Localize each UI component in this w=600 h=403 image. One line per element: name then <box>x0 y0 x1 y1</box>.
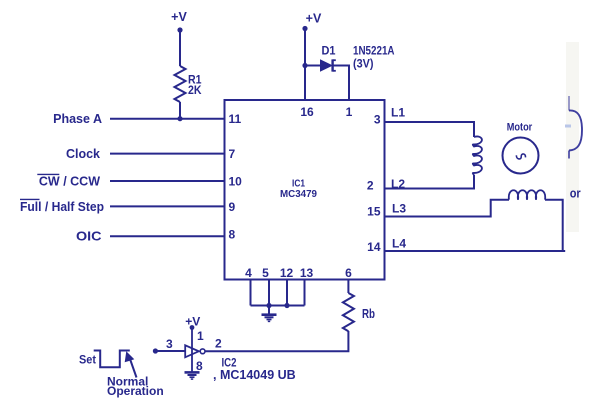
wire node to diode anode <box>305 65 320 67</box>
junction node pin5 / ground <box>266 303 271 308</box>
faded wire stub right edge <box>569 96 582 159</box>
IC1 U1 body MC3479 <box>225 100 385 280</box>
junction node IC2 +V <box>190 325 195 330</box>
svg-text:13: 13 <box>300 266 314 280</box>
svg-text:16: 16 <box>300 105 314 119</box>
wire Phase A to pin 11 <box>110 118 225 120</box>
svg-text:Phase A: Phase A <box>53 112 102 126</box>
wire ground bus bar <box>251 305 305 307</box>
svg-text:1N5221A: 1N5221A <box>353 46 395 58</box>
svg-text:2: 2 <box>367 178 374 192</box>
wire +V to R1 top <box>179 30 181 66</box>
svg-text:Rb: Rb <box>362 307 375 321</box>
wire pin 4 down <box>250 280 252 306</box>
junction node pin12 / ground <box>284 303 289 308</box>
diode D1 <box>321 60 332 71</box>
svg-text:11: 11 <box>229 112 242 126</box>
svg-text:OIC: OIC <box>76 230 102 244</box>
wire pin 5 down <box>268 280 270 306</box>
svg-text:L2: L2 <box>391 177 405 191</box>
wire +V to pin 16 <box>304 29 306 101</box>
wire L3-L4 winding to pin 14 <box>385 200 563 251</box>
wire +V through IC2 to ground pin 1/8 <box>191 328 193 372</box>
waveform Set pulse <box>94 351 130 368</box>
motor S symbol <box>516 154 525 159</box>
svg-text:MC3479: MC3479 <box>280 188 317 200</box>
wire CW/CCW to pin 10 <box>110 180 225 182</box>
svg-text:2: 2 <box>215 337 222 351</box>
junction node diode tap <box>302 63 307 68</box>
svg-text:Operation: Operation <box>107 384 164 398</box>
svg-text:Clock: Clock <box>66 147 100 161</box>
svg-text:1: 1 <box>197 329 204 343</box>
wire pin 15 to L3 winding <box>385 200 510 217</box>
junction node Phase A / R1 <box>177 116 182 121</box>
svg-text:(3V): (3V) <box>353 59 374 71</box>
wire pin 3 to L1 <box>385 122 475 137</box>
overline CW <box>37 173 59 175</box>
wire diode cathode to pin 1 <box>333 66 349 101</box>
svg-text:15: 15 <box>367 204 381 218</box>
svg-text:10: 10 <box>229 175 243 189</box>
inverter IC2 triangle <box>185 345 199 357</box>
wire R1 bottom to Phase A node <box>179 102 181 119</box>
wire ground stem <box>268 306 270 314</box>
svg-text:5: 5 <box>262 266 269 280</box>
junction node +V right <box>302 26 307 31</box>
svg-text:9: 9 <box>229 200 236 214</box>
wire OIC to pin 8 <box>110 235 225 237</box>
svg-text:6: 6 <box>345 266 352 280</box>
inductor motor winding L1-L2 <box>473 136 482 175</box>
svg-text:L4: L4 <box>392 237 406 251</box>
wire IC2 input pin 3 <box>155 350 185 352</box>
arrow Normal Operation pointer <box>130 359 137 378</box>
ground GND2 under IC2 <box>185 372 200 379</box>
svg-text:L1: L1 <box>391 106 405 120</box>
svg-text:+V: +V <box>171 10 187 24</box>
svg-text:3: 3 <box>166 337 173 351</box>
wire Full/Half Step to pin 9 <box>110 205 225 207</box>
wire pin 13 down <box>304 280 306 306</box>
inverter bubble IC2 <box>200 349 205 354</box>
overline Full <box>20 198 40 200</box>
svg-text:14: 14 <box>367 240 381 254</box>
resistor Rb <box>343 293 354 331</box>
svg-text:Full / Half Step: Full / Half Step <box>20 200 104 214</box>
svg-text:D1: D1 <box>322 44 336 58</box>
svg-text:8: 8 <box>196 359 203 373</box>
wire Rb bottom to IC2 output <box>205 331 348 351</box>
svg-text:8: 8 <box>229 228 236 242</box>
svg-text:+V: +V <box>306 12 322 26</box>
svg-text:1: 1 <box>346 105 353 119</box>
svg-text:4: 4 <box>245 266 252 280</box>
inductor motor winding L3-L4 <box>509 190 545 199</box>
svg-text:+V: +V <box>185 315 200 329</box>
ground GND1 under pins 4,5,12,13 <box>262 315 277 322</box>
svg-text:L3: L3 <box>392 202 406 216</box>
svg-text:Motor: Motor <box>507 122 533 134</box>
svg-text:2K: 2K <box>188 83 202 97</box>
wire pin 6 to Rb <box>347 280 349 294</box>
svg-text:or: or <box>570 186 581 200</box>
svg-text:3: 3 <box>374 113 381 127</box>
svg-text:12: 12 <box>280 266 294 280</box>
resistor R1 <box>175 66 186 102</box>
junction node Set input <box>153 348 158 353</box>
wire pin 12 down <box>286 280 288 306</box>
svg-text:Set: Set <box>79 353 96 367</box>
junction node +V left <box>177 27 182 32</box>
faded mark light blue <box>565 125 571 128</box>
svg-text:CW / CCW: CW / CCW <box>39 175 100 189</box>
faded background band right edge <box>566 42 579 232</box>
wire L1-L2 coil bottom to pin 2 <box>385 175 475 189</box>
wire Clock to pin 7 <box>110 153 225 155</box>
svg-text:7: 7 <box>229 147 236 161</box>
motor M1 circle <box>503 138 539 174</box>
svg-text:, MC14049 UB: , MC14049 UB <box>213 368 296 382</box>
